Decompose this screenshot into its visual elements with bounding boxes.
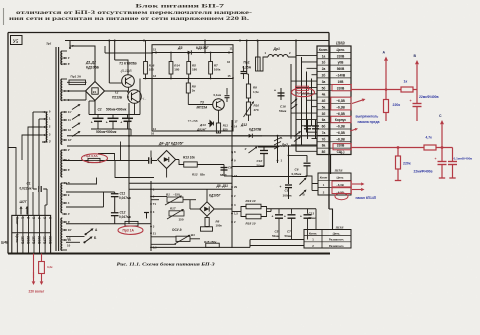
svg-text:0,1мк: 0,1мк [214, 93, 222, 97]
svg-text:6б: 6б [322, 125, 326, 129]
svg-text:С1: С1 [27, 182, 31, 186]
svg-text:Цепь: Цепь [337, 48, 345, 52]
svg-text:4: 4 [37, 217, 41, 219]
svg-text:1б: 1б [322, 61, 326, 65]
svg-text:1,5: 1,5 [234, 212, 238, 216]
svg-text:10: 10 [67, 243, 71, 247]
svg-text:отличается от БП-3 отсутствием: отличается от БП-3 отсутствием переключа… [16, 11, 253, 16]
svg-text:2: 2 [26, 217, 30, 219]
svg-text:100мк: 100мк [283, 193, 292, 197]
svg-text:100к: 100к [216, 224, 223, 228]
svg-text:6а: 6а [322, 118, 326, 122]
svg-text:4,7к: 4,7к [426, 136, 433, 140]
svg-text:5а: 5а [322, 105, 326, 109]
svg-text:0,047мк: 0,047мк [119, 196, 131, 200]
svg-text:50мк: 50мк [279, 109, 287, 113]
svg-text:Конт.: Конт. [319, 48, 329, 52]
svg-text:~127В: ~127В [43, 234, 47, 244]
svg-text:11: 11 [230, 47, 233, 51]
svg-text:3к: 3к [192, 89, 196, 93]
svg-text:16: 16 [227, 60, 231, 64]
svg-text:16: 16 [151, 131, 155, 135]
svg-text:Т1: Т1 [153, 202, 157, 206]
svg-text:R15 150к: R15 150к [204, 240, 217, 244]
svg-text:19В: 19В [338, 80, 345, 84]
svg-text:ния сети и рассчитан на питани: ния сети и рассчитан на питание от сети … [9, 17, 249, 22]
svg-text:11: 11 [68, 118, 71, 122]
svg-text:4': 4' [245, 147, 248, 151]
svg-text:Д12: Д12 [240, 123, 247, 127]
svg-text:12': 12' [68, 138, 72, 142]
svg-text:+: + [91, 120, 93, 124]
svg-text:Цепь.: Цепь. [333, 231, 341, 235]
svg-text:Конт.: Конт. [309, 231, 317, 235]
svg-text:29: 29 [234, 185, 238, 189]
svg-text:Размагнич.: Размагнич. [329, 238, 345, 242]
svg-text:7а: 7а [322, 131, 326, 135]
svg-text:10': 10' [68, 228, 72, 232]
svg-text:1к: 1к [404, 80, 408, 84]
svg-text:-(5-11)В: -(5-11)В [120, 69, 132, 73]
svg-text:1: 1 [20, 217, 24, 219]
svg-text:150: 150 [179, 218, 184, 222]
svg-text:0,1мкФ/400в: 0,1мкФ/400в [454, 156, 473, 160]
svg-text:С2: С2 [98, 108, 102, 112]
svg-text:6': 6' [68, 62, 71, 66]
svg-text:0,022мк: 0,022мк [20, 186, 32, 190]
svg-text:~140В: ~140В [336, 74, 346, 78]
svg-text:У5: У5 [13, 40, 19, 45]
svg-text:Пр4 0,5А: Пр4 0,5А [85, 154, 99, 158]
svg-text:310В: 310В [337, 86, 345, 90]
svg-text:~6,3В: ~6,3В [336, 105, 345, 109]
svg-text:0,05мк: 0,05мк [292, 172, 302, 176]
svg-text:~127В: ~127В [20, 234, 24, 244]
svg-text:22мкФ/400в: 22мкФ/400в [414, 170, 433, 174]
svg-text:Д1,Д2: Д1,Д2 [85, 61, 96, 65]
svg-text:Пр3 1А: Пр3 1А [123, 229, 135, 233]
svg-text:R12: R12 [192, 172, 198, 176]
svg-text:~6,3В: ~6,3В [336, 137, 345, 141]
svg-text:3,3к: 3,3к [47, 265, 53, 269]
svg-text:Д3: Д3 [177, 46, 183, 50]
svg-text:21: 21 [153, 231, 157, 235]
svg-text:+: + [106, 120, 108, 124]
svg-text:~6,3В: ~6,3В [336, 131, 345, 135]
svg-text:50мк: 50мк [309, 216, 317, 220]
svg-text:С5: С5 [275, 230, 279, 234]
svg-text:~6,3В: ~6,3В [336, 125, 345, 129]
svg-text:2б: 2б [322, 74, 326, 78]
svg-text:Корпус: Корпус [335, 118, 346, 122]
svg-text:+: + [435, 157, 437, 161]
svg-text:180: 180 [192, 68, 197, 72]
svg-text:СЦ(-): СЦ(-) [337, 150, 345, 154]
svg-text:~6,3В: ~6,3В [336, 183, 344, 187]
svg-text:у0В: у0В [338, 61, 345, 65]
svg-text:Рис. 11.1. Схема блока питания: Рис. 11.1. Схема блока питания БП-3 [117, 261, 215, 266]
svg-text:Конт: Конт [15, 217, 19, 225]
svg-text:13: 13 [153, 47, 157, 51]
svg-text:Д13: Д13 [199, 123, 206, 127]
svg-text:~150: ~150 [173, 192, 180, 196]
svg-text:КД105Г: КД105Г [196, 46, 210, 50]
svg-text:~220В: ~220В [37, 234, 41, 244]
svg-text:310В: 310В [337, 144, 345, 148]
svg-text:+: + [300, 214, 302, 218]
svg-text:К1: К1 [93, 90, 97, 94]
svg-text:+: + [284, 214, 286, 218]
svg-text:КД105В: КД105В [249, 128, 262, 132]
svg-text:Др1: Др1 [273, 47, 281, 51]
svg-text:Размагнич.: Размагнич. [329, 244, 345, 248]
svg-text:1': 1' [68, 56, 71, 60]
svg-text:4а: 4а [322, 93, 326, 97]
svg-text:100к: 100к [214, 68, 221, 72]
svg-text:220 вольт: 220 вольт [29, 290, 45, 294]
svg-text:7б: 7б [322, 137, 326, 141]
svg-text:накала преда: накала преда [358, 120, 380, 124]
svg-text:820: 820 [223, 128, 228, 132]
svg-text:R18 10: R18 10 [246, 222, 256, 226]
svg-text:-(...: -(... [142, 97, 147, 101]
svg-text:50мк: 50мк [272, 234, 280, 238]
svg-text:6: 6 [48, 217, 52, 219]
svg-text:3: 3 [32, 217, 36, 219]
svg-text:4': 4' [68, 212, 71, 216]
svg-text:8а: 8а [322, 144, 326, 148]
svg-text:180: 180 [149, 68, 154, 72]
svg-text:С11: С11 [120, 192, 126, 196]
svg-text:Т2: Т2 [115, 91, 119, 95]
svg-text:13: 13 [153, 74, 157, 78]
svg-text:8б: 8б [322, 150, 326, 154]
svg-text:Ш4В: Ш4В [1, 241, 9, 245]
svg-text:Т3: Т3 [200, 101, 204, 105]
svg-text:R19 10: R19 10 [246, 199, 256, 203]
svg-text:Ш7Г: Ш7Г [20, 200, 28, 204]
svg-text:15: 15 [228, 74, 232, 78]
svg-text:~127В: ~127В [32, 234, 36, 244]
svg-text:3': 3' [49, 140, 52, 144]
svg-text:С16: С16 [280, 105, 286, 109]
svg-text:~6,3В: ~6,3В [336, 112, 345, 116]
svg-text:КД105Г: КД105Г [209, 194, 222, 198]
svg-text:Т7-15Б: Т7-15Б [188, 119, 198, 123]
svg-text:С7: С7 [287, 230, 291, 234]
svg-text:+: + [280, 185, 282, 189]
svg-text:1а: 1а [322, 54, 326, 58]
svg-text:выпрямитель: выпрямитель [356, 114, 379, 118]
svg-text:В3: В3 [191, 233, 195, 237]
svg-text:Тр1: Тр1 [46, 42, 52, 46]
svg-text:4б: 4б [322, 99, 326, 103]
svg-text:С10: С10 [257, 159, 263, 163]
svg-text:220к: 220к [403, 162, 411, 166]
svg-text:МП15А: МП15А [197, 105, 208, 109]
svg-text:Конт: Конт [320, 176, 328, 180]
svg-text:6': 6' [68, 168, 71, 172]
svg-text:1,5к: 1,5к [253, 90, 259, 94]
svg-text:Ш5Б: Ш5Б [334, 168, 344, 172]
svg-text:П213Б: П213Б [112, 96, 123, 100]
svg-text:Блок питания БП-7: Блок питания БП-7 [136, 3, 225, 9]
svg-text:2': 2' [68, 148, 71, 152]
svg-text:Цепь: Цепь [15, 234, 19, 242]
svg-text:180: 180 [174, 68, 179, 72]
svg-text:Д8–Д11: Д8–Д11 [216, 184, 229, 188]
svg-text:В1: В1 [166, 192, 170, 196]
svg-text:~220В: ~220В [26, 234, 30, 244]
svg-text:5: 5 [43, 217, 47, 219]
svg-text:С6: С6 [295, 168, 299, 172]
svg-text:11': 11' [68, 110, 72, 114]
svg-text:Д4–Д7 КД105Г: Д4–Д7 КД105Г [158, 142, 184, 146]
svg-text:10': 10' [67, 236, 71, 240]
svg-text:R17: R17 [170, 206, 176, 210]
svg-text:Д814Г: Д814Г [196, 127, 207, 131]
svg-text:2.: 2. [281, 136, 284, 140]
svg-text:14: 14 [234, 125, 238, 129]
svg-text:+: + [120, 120, 122, 124]
svg-text:22мкФ/400в: 22мкФ/400в [419, 95, 439, 99]
svg-text:С12: С12 [120, 211, 126, 215]
svg-text:3а: 3а [322, 80, 326, 84]
svg-text:50мк: 50мк [285, 234, 293, 238]
svg-text:С8: С8 [228, 166, 232, 170]
svg-text:500мк+500мк: 500мк+500мк [96, 130, 117, 134]
svg-text:накал 6П14П: накал 6П14П [356, 196, 377, 200]
svg-text:82к: 82к [200, 172, 205, 176]
svg-text:Др2: Др2 [281, 143, 289, 147]
svg-text:470: 470 [254, 108, 259, 112]
svg-text:+: + [410, 99, 412, 103]
svg-text:Ш3Б: Ш3Б [335, 225, 345, 229]
svg-text:Пр1 2А: Пр1 2А [71, 74, 82, 78]
svg-text:2а: 2а [322, 67, 326, 71]
svg-text:~6,3В: ~6,3В [336, 99, 345, 103]
svg-text:17: 17 [235, 119, 239, 123]
svg-text:Пр5 0,5А: Пр5 0,5А [296, 91, 310, 95]
svg-text:+: + [272, 214, 274, 218]
svg-text:С13: С13 [309, 211, 315, 215]
svg-text:220к: 220к [393, 103, 401, 107]
svg-text:~220В: ~220В [48, 234, 52, 244]
svg-text:310В: 310В [337, 54, 345, 58]
svg-text:R13 10к: R13 10к [183, 156, 195, 160]
svg-text:Цепь: Цепь [337, 176, 344, 180]
svg-text:Ш8В: Ш8В [335, 41, 345, 45]
svg-text:500мк+500мк: 500мк+500мк [106, 108, 127, 112]
svg-text:ОСУ-9: ОСУ-9 [172, 228, 182, 232]
svg-text:5б: 5б [322, 86, 326, 90]
svg-text:560В: 560В [337, 67, 345, 71]
svg-text:+: + [274, 88, 276, 92]
svg-text:0,047мк: 0,047мк [119, 215, 131, 219]
svg-text:КД105Б: КД105Б [86, 65, 100, 69]
svg-text:3б: 3б [322, 112, 326, 116]
svg-text:12: 12 [68, 128, 72, 132]
